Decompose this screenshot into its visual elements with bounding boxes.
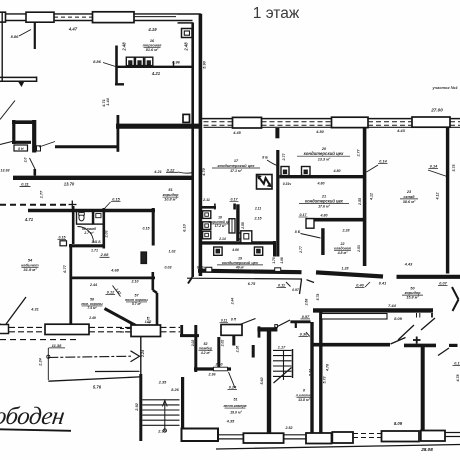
stair2 divider	[283, 350, 285, 380]
south wall rooms19	[198, 271, 302, 273]
pier box B	[26, 12, 54, 22]
stair2 tread 4	[273, 365, 292, 367]
band2 pier C	[412, 117, 450, 127]
stair2 tread 1	[273, 349, 292, 351]
svg-text:4.80: 4.80	[317, 182, 325, 186]
svg-text:кондитерский цех: кондитерский цех	[217, 163, 255, 168]
underline room51v	[225, 407, 246, 409]
counter box 1 on wall	[126, 57, 134, 65]
el-panel inner	[184, 31, 189, 35]
counter box 3 inner	[147, 61, 150, 65]
svg-text:4.8 м²: 4.8 м²	[337, 251, 349, 255]
wall x365	[363, 128, 367, 266]
zigzag line	[258, 177, 270, 187]
leader 0.24	[229, 372, 236, 388]
wall x118	[117, 115, 120, 152]
south3 dash1	[353, 433, 381, 435]
svg-text:склад: склад	[404, 195, 416, 199]
spine wall R	[199, 14, 203, 276]
north wall outer line	[0, 13, 178, 15]
svg-text:5.78: 5.78	[316, 294, 320, 301]
south band line2	[9, 331, 45, 333]
counter box 2 inner	[138, 61, 141, 65]
underline 0.15 a	[111, 200, 121, 202]
white niche below wall	[322, 314, 388, 320]
underline 0.07	[438, 285, 448, 287]
svg-text:0.11: 0.11	[278, 284, 285, 288]
wall x278	[276, 150, 279, 257]
svg-text:2.44: 2.44	[230, 298, 234, 306]
svg-text:0.07: 0.07	[439, 282, 447, 286]
stair tread 5	[142, 419, 179, 421]
svg-text:4.12: 4.12	[436, 193, 440, 201]
underline room18	[210, 223, 230, 225]
svg-text:13.8 м²: 13.8 м²	[298, 398, 311, 402]
door rect inner line	[231, 219, 233, 233]
svg-text:17.1 м²: 17.1 м²	[230, 169, 243, 173]
svg-text:0.17: 0.17	[454, 362, 460, 366]
leader 8Б b	[301, 234, 321, 239]
south3 dash2	[353, 437, 381, 439]
dashdot line 1 arrow shaft	[48, 356, 131, 357]
svg-text:8 П: 8 П	[231, 318, 237, 322]
svg-text:51: 51	[168, 188, 172, 192]
svg-text:1.28: 1.28	[342, 267, 349, 271]
svg-text:5.60: 5.60	[260, 378, 264, 385]
svg-text:0.97: 0.97	[302, 315, 310, 319]
pier box A	[0, 12, 6, 22]
hinge tick b	[419, 313, 421, 318]
door notch box at x239	[239, 233, 250, 239]
south wall right part	[397, 275, 460, 279]
underline 0.12	[166, 171, 178, 173]
underline room52	[199, 350, 213, 352]
svg-text:2.08: 2.08	[100, 252, 110, 257]
room52 east wall	[217, 337, 220, 368]
svg-text:4.45: 4.45	[232, 131, 241, 135]
underline room19 name	[217, 264, 263, 266]
leader 0.14 b	[428, 170, 449, 177]
room19 box b	[254, 247, 262, 255]
tick at corridor wall end	[431, 313, 433, 318]
diagonal wall	[105, 309, 139, 328]
svg-text:8.09: 8.09	[394, 316, 403, 321]
band2 dash2	[450, 124, 460, 126]
band2 dash1	[450, 121, 460, 123]
svg-text:8.86: 8.86	[11, 34, 20, 39]
svg-text:5.90: 5.90	[203, 60, 207, 68]
svg-text:2.10: 2.10	[131, 280, 139, 284]
small box below 0.15	[60, 241, 67, 246]
south pier edge box	[0, 325, 9, 334]
stub below band2	[275, 128, 279, 138]
wc room box 2	[94, 212, 104, 225]
counter box 2 on wall	[136, 57, 144, 65]
interior wall x423	[421, 346, 425, 431]
stair arrow line	[164, 401, 166, 430]
south band line1	[89, 326, 131, 328]
west counter bottom line	[0, 80, 37, 82]
svg-text:0.40: 0.40	[356, 284, 364, 288]
south2 window line1	[284, 434, 306, 436]
svg-text:0.17: 0.17	[300, 213, 308, 217]
band2 pier A	[233, 117, 262, 128]
svg-text:2.49: 2.49	[88, 316, 96, 320]
hinge tick a	[416, 313, 418, 318]
svg-text:13.93: 13.93	[1, 169, 10, 173]
south wall rooms20-21	[316, 272, 383, 276]
underline room58	[82, 305, 103, 307]
svg-text:17.6 м²: 17.6 м²	[318, 205, 331, 209]
wall y207 room18	[200, 206, 217, 209]
zigzag head a	[258, 176, 261, 179]
wall x238	[236, 204, 239, 241]
underline 0.30	[299, 336, 309, 338]
T-porch top bar	[257, 327, 277, 331]
section duct wall	[319, 311, 322, 433]
west counter tick triangle	[19, 82, 24, 86]
arrowhead diag	[0, 324, 7, 333]
band2 outer line	[201, 118, 460, 120]
underline 11.38	[49, 347, 66, 349]
svg-text:2.52: 2.52	[285, 426, 293, 430]
svg-text:7.4 м²: 7.4 м²	[87, 306, 97, 310]
band2 dash2	[204, 124, 233, 126]
svg-text:1 этаж: 1 этаж	[253, 5, 300, 22]
svg-text:4.47: 4.47	[68, 27, 78, 32]
wc door arc	[78, 227, 94, 243]
stair tread 4	[142, 414, 179, 416]
underline room17 name	[212, 167, 260, 169]
svg-text:2.10: 2.10	[215, 363, 223, 367]
svg-text:4.2 м²: 4.2 м²	[200, 351, 211, 355]
box above wall y126	[183, 114, 190, 122]
svg-text:2.15: 2.15	[254, 217, 263, 221]
wall x116 room16 west	[115, 46, 118, 85]
svg-text:27.00: 27.00	[430, 108, 443, 113]
T-porch left step	[258, 326, 261, 337]
svg-text:0.14: 0.14	[430, 165, 438, 169]
svg-text:1.77: 1.77	[40, 190, 44, 198]
band2 pier B	[332, 117, 369, 127]
svg-text:4.21: 4.21	[151, 71, 161, 76]
svg-text:4.31: 4.31	[30, 308, 38, 312]
svg-text:8.09: 8.09	[394, 421, 403, 426]
north window mid dashed	[54, 16, 92, 18]
stair2 break diag	[274, 368, 292, 384]
leader 0.12	[178, 172, 193, 173]
diag leader room54	[4, 297, 27, 328]
wall y278	[72, 276, 155, 279]
svg-text:4.80: 4.80	[315, 130, 324, 134]
leader 0.40	[365, 282, 370, 287]
svg-text:4.71: 4.71	[24, 217, 34, 222]
underline room23 name	[400, 198, 418, 200]
svg-text:10.8 м²: 10.8 м²	[164, 198, 177, 202]
stair arrowhead	[162, 400, 167, 406]
south pier D	[243, 433, 283, 443]
C-counter left bar	[12, 120, 15, 144]
door leaf b	[453, 300, 459, 312]
wc left wall	[72, 206, 75, 244]
svg-text:11.38: 11.38	[52, 343, 62, 348]
cross v line	[416, 337, 418, 344]
underline 0.17 a	[299, 216, 308, 218]
south band line2	[89, 331, 131, 333]
svg-text:2.14: 2.14	[218, 237, 226, 241]
zigzag head b	[268, 183, 271, 186]
svg-text:2.77: 2.77	[299, 245, 303, 254]
C-counter right bar	[32, 120, 36, 153]
svg-text:0.97: 0.97	[292, 288, 300, 292]
south pier H	[421, 431, 445, 442]
cross h	[69, 204, 77, 206]
svg-text:2.35: 2.35	[157, 430, 166, 434]
svg-text:8.86: 8.86	[93, 59, 102, 64]
svg-text:кондитерский цех: кондитерский цех	[222, 260, 259, 265]
wc bottom wall	[69, 244, 105, 247]
svg-text:тамбур: тамбур	[199, 347, 212, 351]
stub at x116 bottom	[115, 83, 124, 85]
wall x157	[156, 293, 159, 325]
corridor50 south wall	[313, 308, 433, 312]
svg-text:коридор: коридор	[163, 193, 180, 197]
stack box 1 inner	[205, 213, 209, 216]
door diag corr50 b	[398, 325, 414, 340]
jamb x296	[295, 321, 297, 328]
room19 box b inner	[257, 249, 261, 253]
svg-text:6.77: 6.77	[63, 264, 67, 272]
svg-text:4.68: 4.68	[110, 269, 119, 273]
south2 window line1	[218, 434, 243, 436]
svg-text:2.11: 2.11	[254, 207, 261, 211]
svg-text:4.21: 4.21	[153, 170, 161, 174]
svg-text:пост охраны: пост охраны	[125, 298, 148, 302]
stair tread 1	[142, 399, 179, 401]
svg-text:31.9 м²: 31.9 м²	[23, 267, 37, 272]
underline 0.11 c	[277, 287, 287, 289]
wall y243	[201, 241, 276, 244]
wall y345 segA	[313, 343, 390, 347]
svg-text:1.02: 1.02	[145, 320, 152, 324]
band2 dash1	[204, 121, 233, 123]
stair2 right edge	[292, 349, 294, 378]
stack box 1	[203, 211, 211, 219]
svg-text:2.35: 2.35	[158, 381, 167, 385]
wall x153	[152, 208, 155, 246]
svg-text:8 Б: 8 Б	[295, 230, 301, 234]
underline 0.12 b	[106, 294, 116, 296]
underline room54	[22, 266, 39, 268]
tick in wall y67	[173, 62, 175, 68]
svg-text:15.8 м²: 15.8 м²	[406, 296, 419, 300]
circle marker	[47, 355, 50, 358]
underline 0.40	[355, 287, 365, 289]
spine wall L	[191, 23, 194, 277]
leader door 58	[113, 286, 121, 297]
C-counter bottom bar	[12, 141, 31, 144]
band2 dash2	[368, 124, 412, 126]
svg-text:2.26: 2.26	[236, 346, 240, 354]
leader 8.86 b	[103, 63, 116, 67]
diag leader a	[0, 101, 15, 120]
box inner a	[283, 170, 286, 174]
stairwell left wall	[139, 374, 142, 441]
stub x235	[233, 204, 236, 210]
porch left jamb	[180, 325, 183, 337]
door diag gap	[307, 280, 315, 283]
counter box 3 on wall	[145, 57, 153, 65]
door leaf a	[452, 287, 459, 300]
svg-text:49 м²: 49 м²	[235, 265, 245, 269]
dash near diag1	[120, 328, 131, 330]
svg-text:1.41 Б: 1.41 Б	[91, 240, 101, 244]
leader 0.30	[306, 332, 310, 337]
stack box 2	[203, 222, 211, 230]
box on y177 a	[281, 167, 289, 176]
wall x153 lower	[152, 272, 155, 290]
sink	[96, 214, 101, 218]
svg-text:кладовая: кладовая	[334, 247, 352, 251]
svg-text:1.98: 1.98	[280, 257, 284, 263]
stack box 3 inner	[205, 233, 209, 236]
door diag y345	[391, 338, 406, 345]
svg-text:22: 22	[340, 242, 345, 246]
dim line vertical 2.24	[47, 348, 49, 380]
door diag at 52	[240, 319, 256, 325]
svg-text:коридор: коридор	[405, 291, 422, 295]
svg-text:4.78: 4.78	[456, 375, 460, 383]
svg-text:2.92: 2.92	[135, 402, 139, 411]
door rect room18	[229, 219, 235, 233]
wall y147	[55, 145, 118, 148]
thick wall y126	[116, 124, 201, 129]
stairwell right wall	[181, 377, 184, 441]
svg-text:кондитерский цех: кондитерский цех	[304, 151, 344, 156]
svg-text:5.76: 5.76	[93, 385, 102, 390]
underline room22	[334, 250, 351, 252]
svg-text:2.28: 2.28	[342, 229, 350, 233]
wall y220 room21 south	[308, 218, 364, 222]
underline lkletka	[297, 396, 312, 398]
svg-text:4.35: 4.35	[226, 420, 235, 424]
line B	[48, 377, 139, 381]
C-counter foot box	[37, 146, 41, 151]
svg-text:ободен: ободен	[0, 403, 66, 430]
long wall y178	[13, 176, 192, 180]
stair2 tread 3	[273, 360, 292, 362]
diag leader b	[0, 142, 12, 145]
zigzag symbol box	[257, 175, 273, 190]
svg-text:1.02: 1.02	[169, 250, 176, 254]
pier box room52	[221, 325, 242, 336]
svg-text:17.2 м²: 17.2 м²	[215, 224, 227, 228]
doorway box at y220	[306, 219, 314, 229]
underline corr50 name	[402, 294, 423, 296]
leader 0.14 a	[367, 165, 379, 172]
room52 west wall	[194, 325, 197, 372]
svg-text:2.48: 2.48	[122, 42, 127, 52]
thin line A	[95, 370, 140, 372]
wall y345 segC	[449, 344, 458, 347]
underline 0.17 b	[230, 201, 239, 203]
svg-text:0.12: 0.12	[107, 291, 115, 295]
band2 dash1	[262, 121, 332, 123]
wall y322	[290, 320, 310, 323]
svg-text:6.10: 6.10	[182, 223, 186, 231]
underline 0.97	[301, 318, 311, 320]
door leaf gap	[300, 280, 302, 295]
door diag corr50 a	[421, 318, 435, 330]
leader 8Б a	[267, 160, 277, 166]
slot in room52 south wall	[214, 367, 228, 371]
south outer dashes	[0, 339, 76, 341]
corner diag south	[188, 277, 192, 284]
svg-text:2.03: 2.03	[105, 231, 109, 239]
stack box 3	[203, 231, 211, 239]
svg-text:2.44: 2.44	[89, 283, 97, 287]
wall y345 segB	[404, 344, 436, 348]
door diag right of T	[277, 320, 290, 327]
svg-text:2.11: 2.11	[202, 198, 210, 202]
svg-text:5.73: 5.73	[323, 377, 327, 384]
underline 0.14 b	[429, 168, 439, 170]
svg-text:5.74: 5.74	[309, 369, 313, 376]
toilet bowl	[79, 214, 84, 221]
svg-text:13.70: 13.70	[64, 182, 75, 187]
underline 0.17 r	[453, 365, 460, 367]
stub below pier	[232, 335, 235, 345]
south band line1	[161, 326, 181, 328]
stair tread 6	[142, 424, 179, 426]
black pier bar	[141, 252, 147, 264]
svg-text:6.75: 6.75	[248, 282, 256, 286]
svg-text:4.12: 4.12	[369, 193, 373, 201]
svg-text:4.43: 4.43	[404, 263, 413, 267]
step at bar right	[275, 325, 278, 328]
box on y177 b	[302, 167, 311, 176]
room16 south wall	[116, 66, 192, 68]
underline room16	[144, 47, 161, 49]
svg-text:0.03: 0.03	[165, 266, 172, 270]
leader 0.15 a	[104, 202, 111, 209]
wall x448	[446, 127, 449, 274]
svg-text:38.6 м²: 38.6 м²	[403, 200, 416, 204]
svg-text:4.80: 4.80	[320, 213, 328, 217]
band2 dash2	[262, 124, 332, 126]
north outer corner line	[178, 13, 201, 15]
svg-text:8: 8	[303, 389, 305, 393]
west counter top line	[0, 76, 37, 78]
leader from foot box	[39, 142, 55, 148]
svg-text:0.31ч: 0.31ч	[283, 182, 292, 186]
band2 dash1	[368, 121, 412, 123]
stair2 tread 2	[273, 355, 292, 357]
svg-text:1.75: 1.75	[272, 257, 276, 263]
svg-text:2.68: 2.68	[305, 299, 309, 307]
svg-text:0.15: 0.15	[112, 197, 120, 201]
underline 0.14 a	[378, 163, 388, 165]
svg-text:4.19: 4.19	[147, 27, 157, 32]
underline 0.11 b	[220, 321, 229, 323]
leader to wall tick	[30, 158, 36, 169]
svg-text:2.36: 2.36	[208, 373, 217, 377]
svg-text:1.17: 1.17	[278, 346, 286, 350]
svg-text:кондитерский цех: кондитерский цех	[305, 198, 344, 203]
svg-text:вент.камера: вент.камера	[223, 404, 246, 408]
svg-text:7.44: 7.44	[388, 303, 397, 308]
leader small	[286, 282, 291, 287]
